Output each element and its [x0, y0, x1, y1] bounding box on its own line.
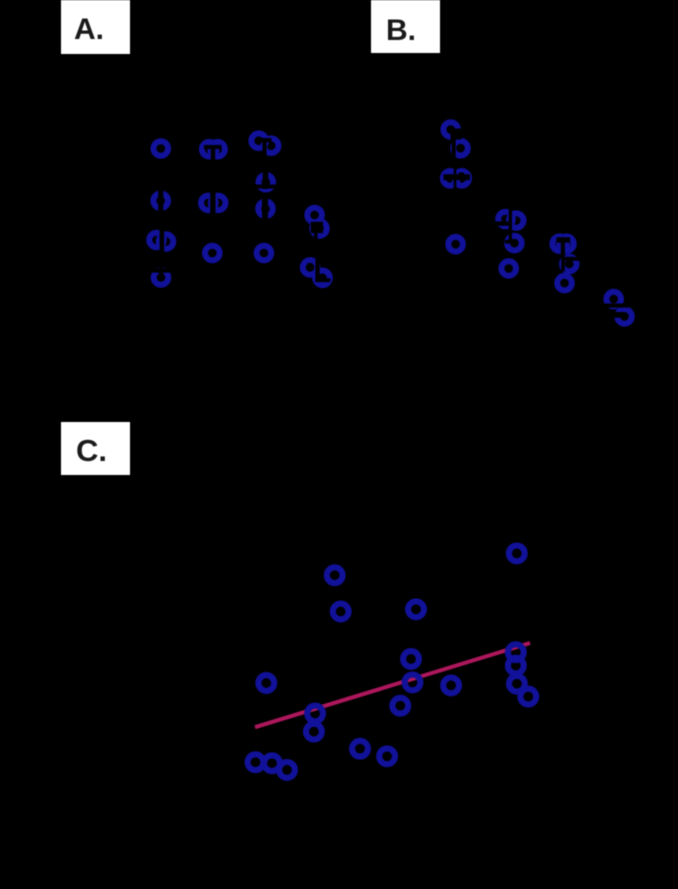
cutout over A17 (band + notch) [151, 268, 172, 272]
point A15 [307, 208, 322, 223]
point C1 [509, 546, 525, 562]
cutout over B6/B7 (bar + band) [509, 206, 512, 243]
cutout over A18/A19 (L glyph) [315, 260, 319, 282]
cutout over B1 (lower-right bite) [451, 129, 462, 140]
point C15 [306, 724, 322, 740]
point C9 [508, 658, 524, 674]
point A3 [210, 142, 225, 157]
point C20 [279, 762, 295, 778]
point C16 [352, 741, 368, 757]
point A11 [149, 233, 164, 248]
point A9 [259, 175, 274, 190]
panel B black label cutouts [444, 129, 630, 318]
svg-text:C.: C. [76, 433, 107, 468]
point C4 [408, 601, 424, 617]
svg-text:B.: B. [386, 14, 416, 47]
point B1 [443, 122, 458, 137]
point B11 [559, 236, 574, 251]
cutout over A10 (vertical bar) [262, 198, 268, 220]
cutout over B2 (vertical bar) [452, 138, 456, 159]
point C12 [443, 678, 459, 694]
panel label box A [61, 0, 130, 54]
point B15 [617, 309, 632, 324]
point C8 [508, 644, 524, 660]
point A13 [205, 246, 220, 261]
point C11 [520, 689, 536, 705]
point A5 [264, 138, 279, 153]
point C3 [333, 604, 349, 620]
point B14 [606, 292, 621, 307]
point B12 [562, 257, 577, 272]
point A19 [315, 271, 330, 286]
cutout over A15/A16 (box + stem) [311, 222, 323, 233]
cutout over B3/B4 (band + bar) [444, 174, 471, 180]
svg-text:A.: A. [74, 13, 104, 46]
point C10 [509, 676, 525, 692]
point C7 [258, 675, 274, 691]
point A1 [154, 141, 169, 156]
point C18 [248, 754, 264, 770]
point B9 [501, 261, 516, 276]
point B3 [443, 171, 458, 186]
point C19 [264, 755, 280, 771]
point A16 [312, 221, 327, 236]
panel label box C [61, 422, 130, 475]
point A2 [202, 142, 217, 157]
cutout over A6 (vertical bar) [158, 190, 163, 212]
cutout over A11/A12 (vertical bar) [160, 229, 165, 254]
cutout over B14/B15 (two bands) [604, 304, 630, 308]
point A8 [211, 196, 226, 211]
point A12 [159, 234, 174, 249]
point A6 [153, 193, 168, 208]
cutout over A4/A5 (T glyph) [261, 138, 272, 142]
point B7 [509, 213, 524, 228]
cutout over A7/A8 (vertical bar) [210, 192, 215, 214]
point B6 [498, 212, 513, 227]
point B13 [557, 276, 572, 291]
point A10 [258, 201, 273, 216]
regression line [255, 643, 530, 727]
cutout over B8 [505, 240, 512, 244]
point C13 [392, 698, 408, 714]
panel label box B [371, 0, 440, 53]
point A18 [303, 260, 318, 275]
cutout over B12 (bar + top band) [561, 257, 565, 272]
point B4 [454, 171, 469, 186]
point B8 [507, 236, 522, 251]
point A4 [251, 133, 266, 148]
point C6 [405, 675, 421, 691]
point B5 [448, 237, 463, 252]
point A17 [154, 270, 169, 285]
point B2 [453, 141, 468, 156]
point C2 [327, 567, 343, 583]
panel A black label cutouts [151, 138, 331, 282]
cutout over A9 (bar + band) [263, 172, 269, 190]
point C5 [403, 651, 419, 667]
cutout over B10/B11 (T glyph) [556, 237, 570, 242]
cutout over A2/A3 (T glyph) [204, 145, 222, 149]
point B10 [552, 236, 567, 251]
point C17 [379, 748, 395, 764]
point C14 [307, 706, 323, 722]
point A14 [257, 246, 272, 261]
point A7 [201, 196, 216, 211]
